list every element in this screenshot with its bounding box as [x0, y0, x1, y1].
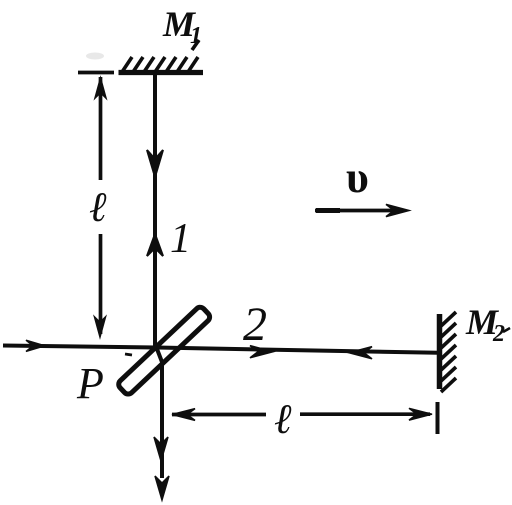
wire: vertical beam M1 to plate	[153, 74, 157, 347]
svg-text:ℓ: ℓ	[274, 397, 292, 443]
wire: horizontal beam right segment to M2	[157, 348, 438, 353]
arrowhead down (dimension l bottom)	[94, 316, 106, 338]
arrowhead left on beam 2 (return)	[349, 347, 372, 359]
dimension tick left of M1	[78, 71, 114, 75]
arrowhead left (bottom dimension)	[172, 409, 195, 421]
dimension line l (left, vertical, double arrow)	[99, 77, 103, 180]
svg-text:ℓ: ℓ	[89, 185, 107, 231]
scan tick after M2	[503, 328, 510, 332]
velocity arrow v	[315, 209, 403, 213]
svg-text:2: 2	[243, 298, 267, 351]
svg-text:1: 1	[170, 216, 191, 262]
dimension line l (bottom, double arrow)	[172, 413, 266, 417]
arrowhead down (outgoing beam, lower)	[155, 476, 169, 500]
svg-text:2: 2	[492, 321, 505, 347]
arrowhead up on beam 1	[147, 234, 163, 256]
mirror M1	[119, 70, 204, 75]
arrowhead up (dimension l top)	[95, 77, 107, 99]
scan smudge	[86, 53, 104, 60]
arrowhead right (incoming beam)	[26, 340, 45, 351]
arrowhead down (outgoing beam, upper)	[154, 437, 168, 461]
dimension tick at M2	[436, 402, 440, 434]
svg-text:1: 1	[190, 23, 202, 49]
svg-text:P: P	[76, 359, 104, 408]
wire: vertical beam downward from plate	[157, 349, 162, 478]
arrowhead right (velocity)	[386, 204, 409, 216]
label M2	[465, 302, 505, 347]
scan dash near plate	[125, 354, 132, 355]
beam splitter plate P	[117, 305, 212, 396]
svg-text:υ: υ	[346, 153, 369, 202]
arrowhead right (bottom dimension)	[409, 408, 432, 420]
wire: horizontal beam left segment	[3, 346, 157, 348]
mirror M1 hatching	[122, 40, 199, 72]
arrowhead down on beam 1	[147, 150, 163, 177]
arrowhead right on beam 2	[250, 346, 273, 358]
mirror M2 hatching	[441, 312, 456, 392]
label M1	[162, 4, 202, 49]
mirror M2	[437, 314, 443, 389]
